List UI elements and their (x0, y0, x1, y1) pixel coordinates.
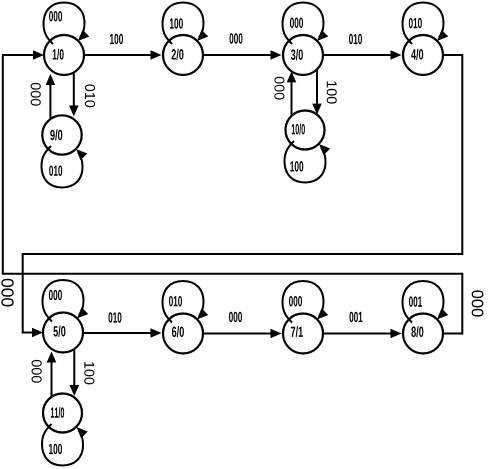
state 6/0 (163, 314, 203, 354)
label 010 on self-loop 4/0 (409, 18, 422, 28)
transition 1/0 to 9/0 (down) (69, 72, 79, 116)
self-loop on 10/0 (285, 141, 331, 183)
transition 1/0 to 2/0 (84, 50, 162, 60)
label 010 on self-loop 6/0 (169, 296, 182, 306)
label 010 on self-loop 9/0 (49, 165, 62, 175)
self-loop on 8/0 (403, 281, 449, 323)
transition 5/0 to 6/0 (83, 328, 162, 338)
label 010 on transition 3/0->4/0 (349, 34, 362, 44)
transition 9/0 to 1/0 (up) (46, 74, 56, 119)
state 8/0 (403, 314, 443, 354)
label 000 on transition 10/0->3/0 (274, 77, 284, 100)
self-loop on 3/0 (283, 3, 329, 45)
state 9/0 (42, 115, 81, 154)
label 000 on right edge of feedback wire (472, 290, 484, 316)
state 2/0 (163, 35, 203, 75)
state 7/1 (283, 314, 323, 354)
transition 7/1 to 8/0 (323, 329, 402, 339)
state 10/0 (286, 111, 325, 150)
transition 3/0 to 4/0 (323, 50, 402, 60)
label 100 on transition 3/0->10/0 (327, 81, 337, 103)
state 1/0 (44, 35, 84, 75)
label 000 on self-loop 1/0 (49, 11, 62, 21)
transition 2/0 to 3/0 (203, 50, 282, 60)
label 000 on transition 2/0->3/0 (230, 33, 243, 43)
label 000 on self-loop 7/1 (289, 296, 302, 306)
label 010 on transition 1/0->9/0 (85, 84, 95, 107)
state 3/0 (283, 35, 323, 75)
self-loop on 5/0 (43, 280, 89, 322)
label 000 on self-loop 5/0 (49, 290, 62, 300)
label 000 on transition 11/0->5/0 (32, 360, 42, 383)
self-loop on 6/0 (163, 281, 209, 323)
label 100 on self-loop 11/0 (49, 444, 62, 454)
label 100 on transition 1/0->2/0 (110, 34, 123, 44)
wire feedback 4/0 to 5/0 (right down, along y=254, down to 5/0) (23, 55, 463, 337)
label 000 on self-loop 3/0 (290, 18, 303, 28)
label 100 on self-loop 2/0 (170, 18, 183, 28)
self-loop on 11/0 (42, 424, 88, 466)
transition 10/0 to 3/0 (up) (287, 71, 297, 116)
self-loop on 1/0 (44, 3, 90, 45)
label 100 on transition 5/0->11/0 (84, 362, 94, 384)
label 000 on transition 9/0->1/0 (31, 83, 41, 106)
self-loop on 9/0 (42, 146, 88, 188)
label 000 on transition 6/0->7/1 (229, 312, 242, 322)
self-loop on 4/0 (403, 3, 449, 45)
state 4/0 (403, 35, 443, 75)
wire feedback 8/0 to 1/0 (right up, along y=273.7, left edge up) (3, 50, 463, 333)
state 5/0 (43, 313, 83, 353)
label 001 on self-loop 8/0 (409, 296, 422, 306)
transition 5/0 to 11/0 (down) (70, 349, 80, 396)
label 001 on transition 7/1->8/0 (350, 312, 363, 322)
label 100 on self-loop 10/0 (290, 161, 303, 171)
self-loop on 2/0 (163, 3, 209, 45)
transition 6/0 to 7/1 (203, 329, 282, 339)
state 11/0 (43, 394, 82, 433)
label 000 on left edge of feedback wire (1, 279, 13, 307)
transition 3/0 to 10/0 (down) (312, 69, 322, 114)
self-loop on 7/1 (283, 281, 329, 323)
transition 11/0 to 5/0 (up) (47, 352, 57, 398)
label 010 on transition 5/0->6/0 (109, 312, 122, 322)
